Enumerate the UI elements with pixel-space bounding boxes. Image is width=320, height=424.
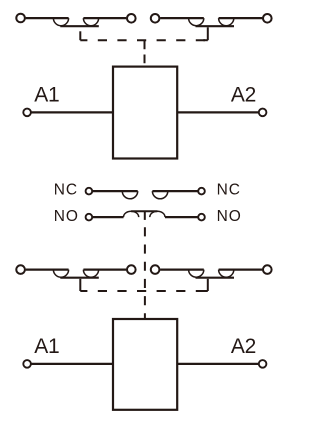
fixed contact cup 3a [53,270,68,278]
svg-text:A1: A1 [34,335,59,358]
terminal circle lower inner-right [151,265,160,274]
wire coil to A2 [177,111,258,113]
NO link tick [144,211,146,220]
moving bridge bar pole 4 [196,277,235,279]
wire [152,190,197,192]
fixed contact cup 4a [189,270,204,278]
wire [26,17,69,19]
mechanical link corner right [203,39,208,41]
coil box upper [113,67,177,159]
wire [219,17,263,19]
svg-text:A2: A2 [231,84,256,107]
terminal circle NC right [198,188,205,195]
long dashed mechanical link NO to lower coil [144,227,146,319]
wire [93,216,124,218]
terminal circle lower-left [16,265,25,274]
fixed contact cup 2b [219,18,234,26]
moving bridge bar pole 1 [60,25,99,27]
terminal circle top inner-right [151,14,160,23]
terminal circle top-right [263,14,272,23]
NC contact cup left [122,191,137,199]
terminal circle NO right [198,214,205,221]
terminal circle NC left [86,188,93,195]
wire [93,190,138,192]
wire [83,17,126,19]
mechanical link tick right [207,27,209,40]
wire [219,269,263,271]
NC contact cup right [152,191,167,199]
wire [165,216,198,218]
wire lower coil to A2 [177,363,258,365]
mechanical link dashed bar lower [80,290,208,292]
wire [160,17,204,19]
mechanical link to coil dashed [144,40,146,63]
svg-text:A1: A1 [34,84,59,107]
mechanical link dashed bar [80,39,208,41]
wire [160,269,204,271]
svg-text:A2: A2 [231,335,256,358]
mechanical link tick lower-right [207,279,209,291]
svg-text:NO: NO [217,208,242,225]
fixed contact cup 3b [83,270,98,278]
coil box lower [113,319,177,410]
moving bridge bar pole 2 [196,25,235,27]
terminal circle top inner-left [127,14,136,23]
terminal circle A1 lower [23,360,31,368]
terminal circle A2 upper [259,109,267,117]
mechanical link tick lower-left [79,279,81,291]
fixed contact cup 2a [189,18,204,26]
NO contact bump left [124,211,139,217]
NO contact bump right [150,211,165,217]
svg-text:NC: NC [54,181,78,198]
svg-text:NO: NO [54,208,79,225]
fixed contact cup 1b [83,18,98,26]
fixed contact cup 1a [53,18,68,26]
terminal circle A2 lower [259,360,267,368]
wire [83,269,126,271]
terminal circle NO left [86,214,93,221]
terminal circle lower inner-left [127,265,136,274]
mechanical link corner lower-right [203,290,208,292]
moving bridge bar pole 3 [60,277,99,279]
wire A1 to coil [31,111,113,113]
mechanical link tick left [79,31,81,40]
fixed contact cup 4b [219,270,234,278]
wire A1 to lower coil [31,363,113,365]
NO moving bridge bar [131,210,157,212]
svg-text:NC: NC [217,181,241,198]
wire [26,269,69,271]
terminal circle lower-right [263,265,272,274]
terminal circle top-left [16,14,25,23]
terminal circle A1 upper [23,109,31,117]
